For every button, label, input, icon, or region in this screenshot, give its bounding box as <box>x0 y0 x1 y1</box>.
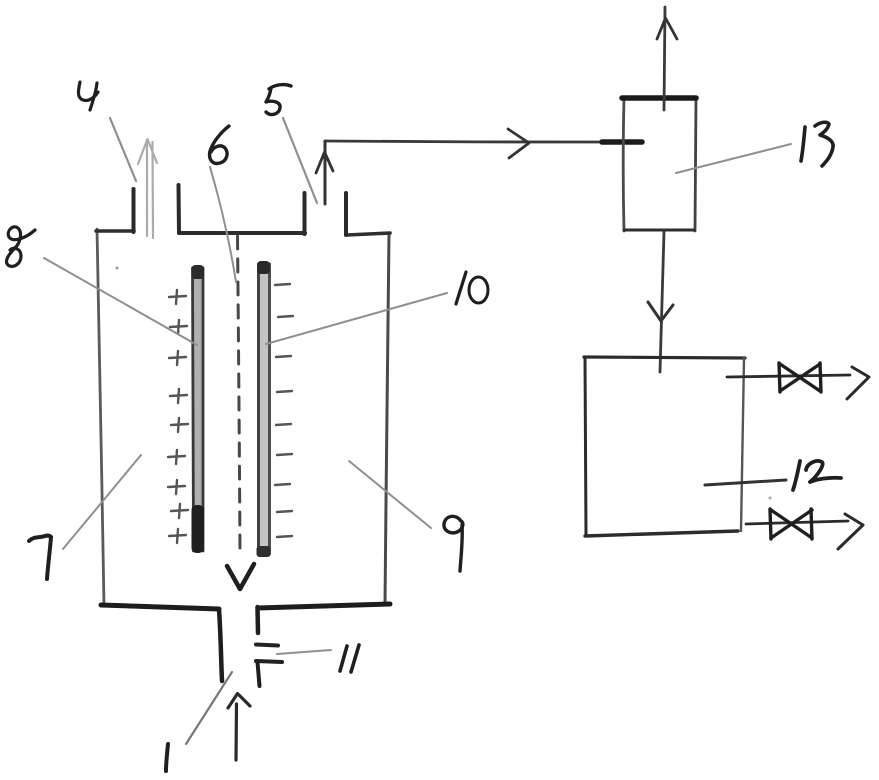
dashed center line 6 <box>238 236 241 557</box>
pipe 4 inlet arrow (light) <box>138 139 157 238</box>
label 11 <box>340 645 359 672</box>
paper speck <box>769 497 772 500</box>
label 13 <box>801 122 833 166</box>
plus charge marks <box>168 290 188 543</box>
leader line to label 8 <box>44 258 197 345</box>
leader line to label 11 <box>277 650 331 654</box>
tank bottom edge right segment <box>258 604 390 608</box>
wire: overhead line from pipe 5 to separator 13 <box>326 141 602 142</box>
wire: top outlet line from tank 12 <box>727 375 850 377</box>
leader line to label 5 <box>283 118 317 203</box>
bottom outlet pipe right wall upper <box>255 607 260 633</box>
electrode 10 (right plate) <box>257 261 271 557</box>
flow arrowhead on overhead line <box>508 129 529 158</box>
label 6 <box>210 126 229 163</box>
pipe 5 up arrowhead <box>316 152 333 173</box>
downward arrowhead of dashed line <box>227 564 254 589</box>
valve on bottom outlet <box>770 509 812 539</box>
down arrowhead on drop line <box>648 302 673 321</box>
tank 12 body <box>584 357 745 536</box>
minus charge marks <box>275 284 293 537</box>
leader line to label 7 <box>63 455 141 549</box>
arrowhead on bottom outlet <box>838 514 863 549</box>
label 7 <box>29 536 51 579</box>
leader line to label 9 <box>349 461 431 528</box>
leader line to label 1 <box>186 672 232 744</box>
vent line up from separator 13 <box>664 7 665 110</box>
label 9 <box>444 516 463 571</box>
label 10 <box>456 272 488 304</box>
inlet arrow 1 <box>228 694 250 761</box>
right nozzle stub walls <box>305 193 347 235</box>
arrowhead on top outlet <box>847 367 869 399</box>
side branch stub top <box>256 645 278 646</box>
leader line to label 10 <box>266 293 447 344</box>
valve on top outlet <box>779 363 821 392</box>
tank top edge middle segment <box>179 231 305 235</box>
leader line to label 6 <box>210 167 236 282</box>
separator 13 inlet thick segment <box>602 139 642 145</box>
leader line to label 13 <box>676 144 791 173</box>
wire: bottom outlet line from tank 12 <box>746 521 848 524</box>
tank bottom edge left segment <box>101 605 219 609</box>
separator 13 body <box>622 98 696 231</box>
wire: drop line from separator 13 to tank 12 <box>660 232 664 372</box>
electrode 8 (left plate) <box>192 265 205 553</box>
label 1 <box>166 744 168 771</box>
label 12 <box>793 461 841 490</box>
leader line to label 4 <box>110 118 136 181</box>
paper speck <box>116 267 119 270</box>
tank top edge right segment <box>347 233 390 235</box>
label 4 <box>78 82 98 110</box>
tank top edge left segment <box>96 229 134 233</box>
pipe 5 riser <box>324 141 327 204</box>
label 5 <box>266 85 291 115</box>
vent up arrowhead <box>657 18 677 39</box>
leader line to label 12 <box>705 480 786 485</box>
label 8 <box>7 227 35 267</box>
vessel tank outline <box>97 229 389 606</box>
left nozzle stub walls <box>134 185 180 233</box>
bottom outlet pipe right wall lower <box>258 662 260 686</box>
bottom outlet pipe left wall <box>219 609 222 681</box>
side branch stub bottom <box>256 661 282 662</box>
